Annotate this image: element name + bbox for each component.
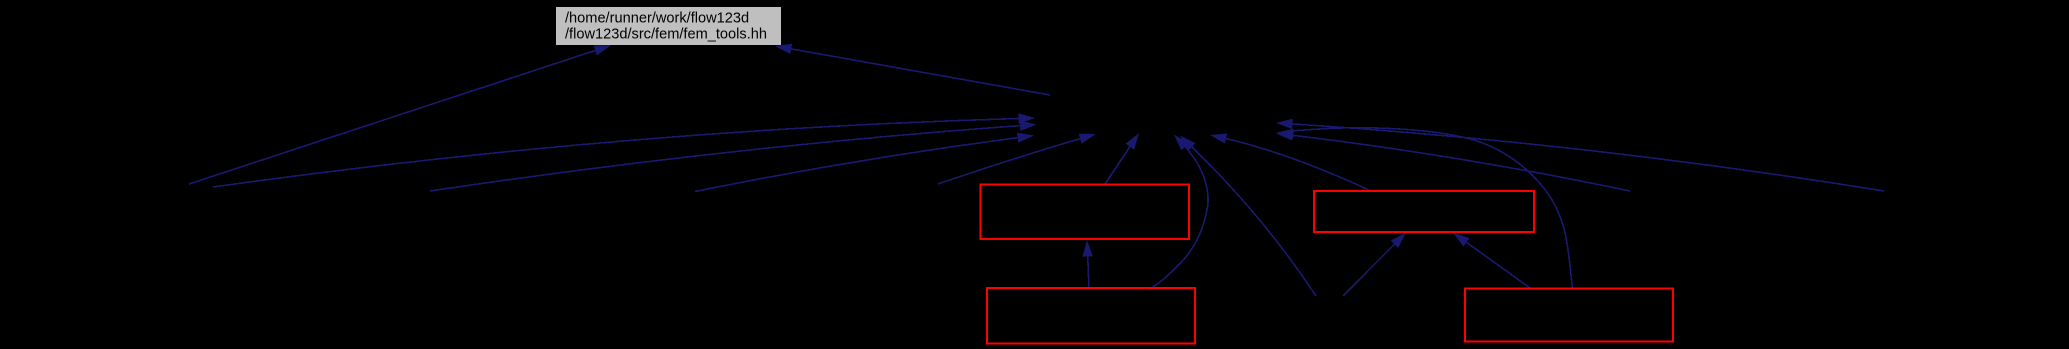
- edge red box2->central: [1210, 134, 1370, 191]
- edge node2->fem_tools.hh (left): [189, 45, 611, 184]
- edge left node->central (2): [430, 121, 1037, 192]
- edge right node->central: [1276, 130, 1630, 191]
- edge red box1->central: [1105, 133, 1139, 184]
- edge node->central (4): [938, 134, 1096, 184]
- node /home/runner/work/flow123d/flow123d/src/fem/fem_tools.hh (root): [556, 7, 781, 45]
- svg-text:/flow123d/src/fem/fem_tools.hh: /flow123d/src/fem/fem_tools.hh: [565, 27, 767, 43]
- edge far-left node->central (1): [213, 113, 1035, 187]
- red box 4 (truncated node): [1465, 289, 1673, 342]
- red box 1 (truncated node): [981, 185, 1190, 240]
- edge central node->fem_tools.hh (right): [775, 44, 1050, 95]
- edge mid node->central (3): [695, 133, 1034, 192]
- svg-text:/home/runner/work/flow123d: /home/runner/work/flow123d: [565, 11, 749, 27]
- edge red box3->central (curved): [1150, 135, 1208, 290]
- edge far-right node->central: [1276, 119, 1884, 191]
- edge bottom-middle node->red box2: [1343, 233, 1406, 296]
- edge red box3->red box1: [1083, 240, 1093, 288]
- edge bottom-middle node->central: [1180, 136, 1316, 297]
- red box 2 (truncated node): [1314, 191, 1534, 232]
- edge red box4->central (curved): [1277, 128, 1573, 288]
- edge red box4->red box2: [1453, 233, 1530, 288]
- red box 3 (truncated node): [987, 288, 1195, 344]
